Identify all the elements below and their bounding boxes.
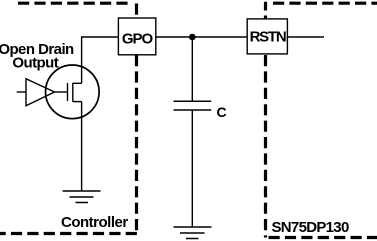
RSTN box	[247, 19, 287, 54]
wire: GPO to RSTN	[155, 36, 248, 38]
transistor Q1 source stub	[73, 101, 82, 103]
capacitor C plates	[174, 101, 212, 110]
transistor Q1 drain stub	[73, 82, 82, 84]
buffer driver A1 triangle	[26, 79, 55, 106]
wire: buffer output to gate	[55, 91, 68, 93]
transistor Q1 circle	[46, 65, 100, 119]
Controller block dashed boundary	[0, 3, 138, 233]
svg-text:C: C	[217, 104, 227, 120]
transistor Q1 channel bar	[72, 83, 74, 102]
svg-text:GPO: GPO	[122, 30, 154, 47]
ground: capacitor side	[174, 227, 212, 239]
wire: RSTN right stub	[287, 36, 324, 38]
GPO box	[118, 18, 155, 55]
transistor Q1 gate bar	[67, 83, 69, 101]
wire: capacitor to ground	[191, 110, 193, 227]
svg-text:Output: Output	[12, 55, 58, 72]
SN75DP130 block dashed boundary	[266, 2, 377, 238]
wire: GPO output to drain drop	[82, 36, 119, 38]
svg-text:RSTN: RSTN	[250, 28, 286, 45]
ground: controller side	[63, 191, 101, 203]
wire: source to ground	[81, 102, 83, 191]
svg-text:SN75DP130: SN75DP130	[272, 219, 349, 236]
buffer driver A1 input stub	[17, 91, 26, 93]
svg-text:Controller: Controller	[61, 214, 128, 231]
wire: junction down to capacitor	[191, 37, 193, 101]
wire: drain vertical	[81, 36, 83, 83]
node: junction of GPO net and C	[189, 34, 196, 41]
